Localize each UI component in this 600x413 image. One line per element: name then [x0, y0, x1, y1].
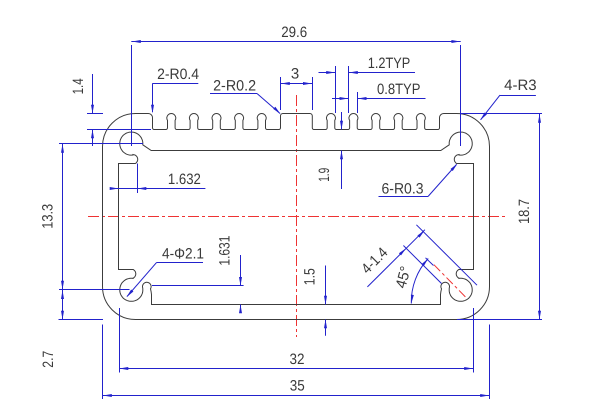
profile inner cavity with 4 corner screw bosses — [119, 132, 474, 304]
dimension 1.9 — [341, 112, 343, 130]
svg-text:32: 32 — [290, 351, 305, 368]
dimension 35 — [102, 325, 104, 400]
dimension 32 — [119, 308, 121, 373]
vertical centerline — [296, 95, 298, 337]
svg-text:2-R0.4: 2-R0.4 — [157, 66, 199, 83]
dimension 2.7 — [59, 319, 104, 321]
svg-text:2.7: 2.7 — [40, 351, 57, 368]
svg-text:35: 35 — [290, 378, 305, 395]
svg-text:1.632: 1.632 — [168, 171, 201, 188]
dimension 13.3 — [59, 143, 143, 145]
svg-text:4-1.4: 4-1.4 — [358, 244, 391, 277]
dimension 1.4 left — [87, 113, 103, 115]
dimension 1.2TYP — [335, 66, 337, 113]
svg-text:1.9: 1.9 — [316, 168, 333, 182]
dimension 1.5 — [325, 266, 327, 305]
horizontal centerline — [88, 216, 505, 218]
svg-text:18.7: 18.7 — [516, 199, 533, 224]
svg-text:4-R3: 4-R3 — [504, 77, 537, 94]
dimension 29.6 — [131, 45, 133, 146]
leader 4-R3 — [500, 95, 536, 97]
svg-text:1.631: 1.631 — [217, 236, 234, 266]
dimension 18.7 — [461, 113, 542, 115]
svg-text:1.5: 1.5 — [302, 268, 319, 285]
svg-text:6-R0.3: 6-R0.3 — [382, 181, 424, 198]
svg-text:1.2TYP: 1.2TYP — [368, 55, 411, 72]
dimension 4-1.4 slot width — [416, 225, 477, 285]
dimension 1.631 — [152, 285, 244, 287]
45 deg slot centerline of bottom-right boss — [434, 265, 466, 298]
dimension 1.632 — [137, 164, 139, 194]
svg-text:29.6: 29.6 — [281, 24, 307, 41]
svg-text:13.3: 13.3 — [40, 204, 57, 229]
svg-text:45°: 45° — [393, 265, 415, 291]
leader 4-dia2.1 — [157, 262, 204, 264]
svg-text:0.8TYP: 0.8TYP — [377, 81, 421, 98]
svg-text:4-Φ2.1: 4-Φ2.1 — [162, 246, 204, 263]
dimension 45 deg arc — [411, 259, 428, 304]
leader 6-R0.3 — [379, 196, 429, 198]
svg-text:3: 3 — [291, 66, 299, 83]
dimension 0.8TYP — [357, 92, 359, 113]
leader 2-R0.2 — [210, 93, 257, 95]
svg-text:1.4: 1.4 — [70, 78, 87, 94]
svg-text:2-R0.2: 2-R0.2 — [213, 77, 256, 94]
profile outer outline with serrated top — [103, 113, 490, 319]
leader 2-R0.4 — [153, 83, 199, 85]
dimension 3 — [280, 77, 282, 110]
